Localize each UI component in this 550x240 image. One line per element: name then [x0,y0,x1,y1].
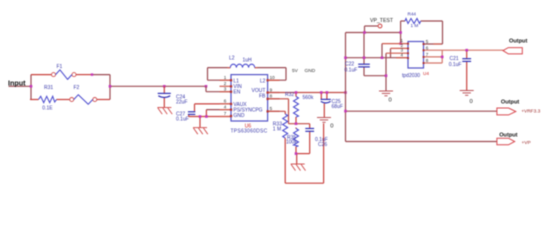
svg-text:100k: 100k [286,140,297,146]
svg-text:8: 8 [270,94,273,99]
svg-text:GND: GND [305,68,316,74]
svg-text:7: 7 [224,111,227,116]
svg-text:4: 4 [400,52,403,57]
svg-text:7: 7 [426,52,429,57]
svg-text:Input: Input [8,79,26,88]
svg-text:F2: F2 [74,85,80,91]
svg-text:R32: R32 [285,92,294,98]
svg-text:6: 6 [426,45,429,50]
svg-text:1 M: 1 M [273,127,281,133]
svg-text:1: 1 [224,75,227,80]
svg-text:0.1uF: 0.1uF [449,62,462,68]
svg-text:0: 0 [470,99,473,105]
svg-text:22uF: 22uF [176,100,187,106]
svg-text:2: 2 [224,81,227,86]
svg-text:8: 8 [426,58,429,63]
svg-text:tpd2030: tpd2030 [402,73,420,79]
svg-text:U4: U4 [423,71,429,76]
svg-text:F1: F1 [57,64,63,70]
svg-text:560k: 560k [303,95,314,101]
svg-text:+VP: +VP [522,140,531,146]
svg-text:L2: L2 [260,79,266,85]
svg-text:68uF: 68uF [332,104,343,110]
svg-text:0.1E: 0.1E [42,106,53,112]
svg-text:+VRF3.3: +VRF3.3 [521,108,540,114]
svg-text:10: 10 [270,75,276,80]
svg-text:Output: Output [509,38,527,44]
svg-text:0: 0 [330,123,333,129]
svg-text:9: 9 [270,87,273,92]
svg-text:6: 6 [224,99,227,104]
svg-text:R44: R44 [408,12,417,17]
svg-text:5: 5 [426,39,429,44]
svg-text:R31: R31 [44,85,53,91]
svg-text:0.1uF: 0.1uF [176,116,189,122]
svg-text:4: 4 [224,104,227,109]
svg-text:TPS63060DSC: TPS63060DSC [231,128,268,134]
svg-text:EN: EN [233,90,240,96]
svg-text:Output: Output [501,100,519,106]
svg-text:1 M: 1 M [411,23,419,28]
svg-text:C21: C21 [450,56,459,62]
svg-text:5V: 5V [292,68,299,74]
svg-text:C26: C26 [318,142,327,148]
svg-text:0.1uF: 0.1uF [345,68,358,74]
svg-text:Output: Output [499,132,517,138]
svg-text:3: 3 [224,87,227,92]
svg-text:GND: GND [233,113,245,119]
svg-text:0: 0 [389,98,392,104]
svg-text:VP_TEST: VP_TEST [370,18,394,24]
svg-text:1uH: 1uH [243,57,253,63]
svg-text:L2: L2 [229,55,235,61]
svg-text:5: 5 [270,106,273,111]
svg-text:FB: FB [259,93,266,99]
